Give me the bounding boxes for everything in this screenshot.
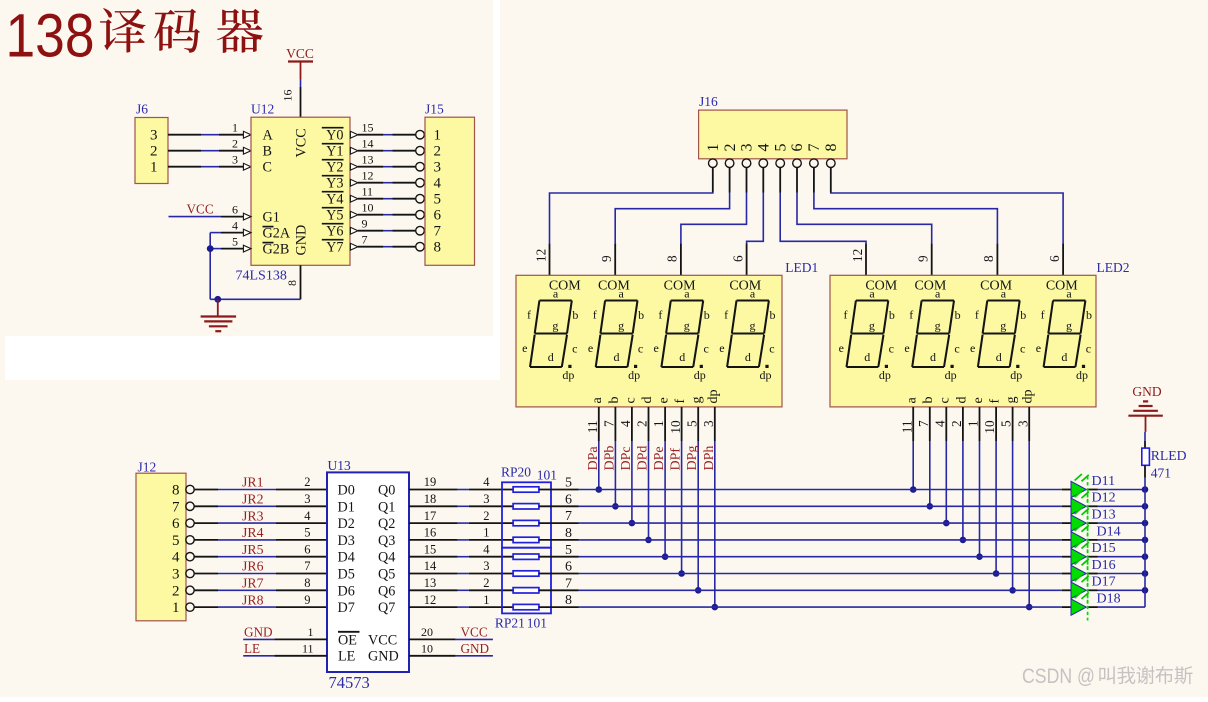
LED D16 — [1071, 558, 1116, 587]
svg-text:14: 14 — [362, 136, 374, 150]
junction LED1 g — [695, 587, 702, 594]
wire J12.7 JR2 to U13 D1 — [194, 492, 327, 507]
svg-text:D15: D15 — [1092, 541, 1116, 556]
wire J16.5 to display COM pin — [780, 168, 866, 276]
junction LED2 c — [943, 520, 950, 527]
svg-text:2: 2 — [434, 144, 442, 160]
junction LED2 b — [927, 503, 934, 510]
svg-text:c: c — [769, 341, 774, 355]
svg-text:LE: LE — [244, 641, 260, 656]
svg-text:8: 8 — [565, 593, 572, 608]
svg-text:Q7: Q7 — [378, 600, 395, 616]
U12 outputs Y0-Y7 names — [322, 128, 344, 256]
wire LED1 segment e to row 5 — [651, 397, 671, 556]
svg-text:4: 4 — [932, 420, 947, 427]
wire D18 to bus — [1089, 606, 1146, 608]
svg-text:COM: COM — [1046, 278, 1078, 293]
svg-text:5: 5 — [565, 543, 572, 558]
svg-text:A: A — [263, 128, 274, 144]
svg-text:dp: dp — [706, 390, 721, 404]
resistor RLED 471 — [1142, 441, 1187, 481]
svg-text:2: 2 — [483, 576, 489, 590]
svg-text:Y2: Y2 — [326, 160, 343, 176]
wire J6.1 to U12 pin 3 — [168, 152, 251, 170]
wire segment row 7 — [539, 576, 1071, 591]
svg-text:8: 8 — [172, 483, 180, 499]
wire U12 Y0 to J15.1 — [350, 120, 424, 139]
svg-text:dp: dp — [945, 368, 957, 382]
svg-text:JR6: JR6 — [242, 559, 264, 574]
svg-text:VCC: VCC — [368, 632, 397, 648]
svg-text:JR5: JR5 — [242, 542, 264, 557]
svg-text:D2: D2 — [338, 516, 355, 532]
svg-text:GND: GND — [461, 641, 490, 656]
junction LED1 c — [629, 520, 636, 527]
svg-text:7: 7 — [172, 499, 180, 515]
svg-text:a: a — [1001, 286, 1007, 300]
svg-text:J15: J15 — [425, 102, 444, 117]
wire J6.2 to U12 pin 2 — [168, 136, 251, 154]
svg-text:Y7: Y7 — [326, 240, 343, 256]
svg-text:4: 4 — [756, 144, 773, 152]
wire LE to U13 pin11 — [243, 642, 327, 656]
svg-text:1: 1 — [651, 420, 666, 427]
wire segment row 6 — [539, 560, 1071, 575]
junction LED1 d — [645, 537, 652, 544]
svg-text:dp: dp — [694, 368, 706, 382]
wire U12 Y4 to J15.5 — [350, 184, 424, 203]
svg-text:10: 10 — [421, 642, 433, 656]
wire D15 to bus — [1089, 556, 1146, 558]
svg-text:15: 15 — [424, 542, 437, 556]
junction LED2 f — [993, 570, 1000, 577]
svg-text:4: 4 — [172, 550, 180, 566]
LED D12 — [1071, 491, 1116, 520]
svg-text:a: a — [590, 397, 605, 404]
svg-text:a: a — [905, 397, 920, 404]
wire U13 Q2 to RP pin — [409, 509, 513, 523]
svg-text:c: c — [623, 397, 638, 403]
wire segment row 3 — [539, 509, 1071, 524]
svg-text:a: a — [750, 286, 756, 300]
svg-text:12: 12 — [850, 249, 865, 262]
wire U13 Q0 to RP pin — [409, 475, 513, 489]
svg-text:e: e — [904, 341, 909, 355]
junction LED2 e — [976, 553, 983, 560]
svg-text:8: 8 — [285, 280, 299, 286]
wire J16.4 to display COM pin — [730, 168, 763, 276]
svg-text:dp: dp — [1021, 390, 1036, 404]
svg-text:g: g — [935, 318, 941, 332]
svg-text:f: f — [988, 399, 1003, 404]
7-segment display LED2 — [830, 260, 1130, 407]
wire to U12 pin5 G2B — [210, 234, 251, 252]
svg-text:a: a — [935, 286, 941, 300]
svg-text:4: 4 — [434, 176, 442, 192]
svg-text:101: 101 — [537, 468, 557, 483]
svg-text:1: 1 — [232, 120, 238, 134]
svg-text:DPh: DPh — [702, 446, 717, 471]
svg-text:Q3: Q3 — [378, 533, 395, 549]
connector J16 — [699, 94, 847, 168]
svg-text:8: 8 — [665, 255, 680, 262]
svg-text:10: 10 — [362, 200, 374, 214]
svg-text:g: g — [684, 318, 690, 332]
svg-text:a: a — [553, 286, 559, 300]
svg-text:dp: dp — [760, 368, 772, 382]
svg-text:Y1: Y1 — [326, 144, 343, 160]
svg-text:9: 9 — [362, 216, 368, 230]
svg-text:Y6: Y6 — [326, 224, 343, 240]
svg-text:JR8: JR8 — [242, 592, 264, 607]
junction LED2 dp — [1026, 604, 1033, 611]
wire U12 Y5 to J15.6 — [350, 200, 424, 219]
wire D17 to bus — [1089, 589, 1146, 591]
svg-text:10: 10 — [668, 420, 683, 434]
svg-text:2: 2 — [635, 420, 650, 427]
svg-text:e: e — [839, 341, 844, 355]
junction bus D12 — [1142, 503, 1149, 510]
svg-text:c: c — [1020, 341, 1025, 355]
wire J12.2 JR7 to U13 D6 — [194, 576, 327, 591]
junction ground stem — [214, 296, 221, 303]
LED D17 — [1071, 575, 1116, 604]
net label VCC (U13) — [461, 625, 488, 640]
svg-text:3: 3 — [304, 492, 310, 506]
wire U12 Y3 to J15.4 — [350, 168, 424, 187]
svg-text:Q6: Q6 — [378, 583, 395, 599]
svg-text:c: c — [638, 341, 643, 355]
svg-text:b: b — [572, 308, 578, 322]
svg-text:2: 2 — [304, 475, 310, 489]
wire GND to U13 pin1 OE — [243, 625, 327, 639]
svg-text:b: b — [1020, 308, 1026, 322]
wire U13 Q4 to RP pin — [409, 542, 513, 556]
wire LED cathode bus — [1144, 478, 1146, 607]
svg-text:Q5: Q5 — [378, 567, 395, 583]
svg-text:DPf: DPf — [669, 448, 684, 471]
wire U13 Q1 to RP pin — [409, 492, 513, 506]
svg-text:5: 5 — [172, 533, 180, 549]
svg-text:RP21: RP21 — [495, 616, 525, 631]
svg-text:Y0: Y0 — [326, 128, 343, 144]
svg-text:b: b — [770, 308, 776, 322]
svg-text:C: C — [263, 160, 272, 176]
wire D14 to bus — [1089, 539, 1146, 541]
svg-text:b: b — [638, 308, 644, 322]
LED D14 — [1071, 524, 1121, 553]
svg-text:13: 13 — [424, 576, 437, 590]
svg-text:6: 6 — [565, 560, 572, 575]
svg-text:5: 5 — [684, 420, 699, 427]
svg-text:6: 6 — [565, 492, 572, 507]
wire U12 Y7 to J15.8 — [350, 232, 424, 251]
svg-text:16: 16 — [424, 526, 437, 540]
wire segment row 8 — [539, 593, 1071, 608]
svg-text:1: 1 — [483, 593, 489, 607]
wire to U12 pin4 G2A — [210, 218, 251, 236]
svg-text:8: 8 — [565, 526, 572, 541]
wire J16.7 to display COM pin — [814, 168, 998, 276]
IC U13 74573 — [327, 458, 409, 692]
svg-text:d: d — [996, 350, 1002, 364]
svg-text:b: b — [955, 308, 961, 322]
junction LED2 g — [1009, 587, 1016, 594]
svg-text:e: e — [971, 397, 986, 403]
svg-text:7: 7 — [806, 144, 823, 152]
wire J12.5 JR4 to U13 D3 — [194, 525, 327, 540]
svg-text:DPd: DPd — [636, 446, 651, 471]
svg-text:RP20: RP20 — [501, 464, 531, 479]
wire LED1 segment a to row 1 — [585, 397, 605, 490]
svg-text:12: 12 — [362, 168, 374, 182]
junction bus D16 — [1142, 570, 1149, 577]
svg-text:JR3: JR3 — [242, 508, 264, 523]
svg-text:e: e — [1036, 341, 1041, 355]
svg-text:Q0: Q0 — [378, 483, 395, 499]
svg-text:Q4: Q4 — [378, 550, 395, 566]
svg-text:VCC: VCC — [187, 201, 214, 216]
svg-text:e: e — [522, 341, 527, 355]
wire LED2 segment dp to row 8 — [1015, 390, 1035, 608]
svg-text:d: d — [640, 397, 655, 404]
svg-text:Y3: Y3 — [326, 176, 343, 192]
svg-text:D7: D7 — [338, 600, 355, 616]
wire GND to RLED — [1144, 432, 1146, 441]
LED D15 — [1071, 541, 1116, 570]
svg-text:COM: COM — [664, 278, 696, 293]
wire LED2 segment e to row 5 — [966, 397, 986, 556]
svg-text:c: c — [889, 341, 894, 355]
wire LED2 segment f to row 6 — [982, 399, 1002, 574]
svg-text:LE: LE — [338, 649, 355, 665]
wire J12.8 JR1 to U13 D0 — [194, 475, 327, 490]
svg-text:6: 6 — [730, 255, 745, 262]
svg-text:14: 14 — [424, 559, 437, 573]
svg-text:DPa: DPa — [586, 446, 601, 471]
svg-text:D5: D5 — [338, 567, 355, 583]
wire J12.1 JR8 to U13 D7 — [194, 592, 327, 607]
svg-text:d: d — [548, 350, 554, 364]
junction bus D15 — [1142, 553, 1149, 560]
svg-text:2: 2 — [172, 583, 180, 599]
svg-text:3: 3 — [1015, 420, 1030, 427]
svg-text:8: 8 — [304, 576, 310, 590]
wire J12.6 JR3 to U13 D2 — [194, 508, 327, 523]
svg-text:18: 18 — [424, 492, 437, 506]
svg-text:17: 17 — [424, 509, 437, 523]
resistor pack RP21 — [495, 548, 551, 631]
svg-text:U12: U12 — [251, 102, 274, 117]
svg-text:D17: D17 — [1092, 575, 1116, 590]
svg-text:c: c — [938, 397, 953, 403]
svg-text:b: b — [607, 397, 622, 404]
svg-text:g: g — [618, 318, 624, 332]
svg-text:COM: COM — [729, 278, 761, 293]
junction LED1 f — [678, 570, 685, 577]
svg-text:a: a — [1066, 286, 1072, 300]
wire U12 Y6 to J15.7 — [350, 216, 424, 235]
svg-text:12: 12 — [424, 593, 437, 607]
svg-text:RLED: RLED — [1151, 448, 1187, 463]
junction LED1 b — [612, 503, 619, 510]
svg-text:5: 5 — [772, 144, 789, 152]
wire D12 to bus — [1089, 505, 1146, 507]
wire segment row 1 — [539, 476, 1071, 491]
svg-text:Y4: Y4 — [326, 192, 343, 208]
wire U13 Q3 to RP pin — [409, 526, 513, 540]
svg-text:b: b — [704, 308, 710, 322]
svg-text:f: f — [1041, 308, 1045, 322]
svg-text:b: b — [1086, 308, 1092, 322]
svg-text:471: 471 — [1151, 466, 1171, 481]
power VCC (U12 pin 16) — [286, 46, 314, 79]
svg-text:GND: GND — [244, 625, 273, 640]
svg-text:5: 5 — [434, 192, 442, 208]
junction LED1 a — [596, 486, 603, 493]
svg-text:c: c — [1086, 341, 1091, 355]
junction LED1 e — [662, 553, 669, 560]
svg-text:g: g — [869, 318, 875, 332]
svg-text:138: 138 — [6, 1, 95, 69]
svg-text:CSDN @: CSDN @ — [1022, 665, 1095, 688]
svg-text:6: 6 — [789, 144, 806, 152]
wire J12.4 JR5 to U13 D4 — [194, 542, 327, 557]
svg-text:D16: D16 — [1092, 558, 1116, 573]
svg-text:5: 5 — [232, 234, 238, 248]
net label GND (U13) — [461, 641, 490, 656]
svg-text:LED1: LED1 — [785, 260, 818, 275]
wire segment row 5 — [539, 543, 1071, 558]
svg-text:4: 4 — [304, 509, 311, 523]
svg-text:VCC: VCC — [286, 46, 314, 61]
connector J12 — [136, 460, 194, 621]
svg-text:VCC: VCC — [293, 128, 309, 157]
LED D18 — [1071, 592, 1121, 621]
wire VCC to U12 pin6 G1 — [169, 202, 252, 220]
svg-text:J6: J6 — [136, 102, 148, 117]
svg-text:g: g — [1000, 318, 1006, 332]
wire U12 pin8 GND — [285, 265, 301, 299]
svg-text:e: e — [657, 397, 672, 403]
svg-text:7: 7 — [916, 420, 931, 427]
svg-text:b: b — [889, 308, 895, 322]
svg-text:16: 16 — [280, 90, 294, 102]
wire J16.8 to display COM pin — [831, 168, 1063, 276]
svg-text:g: g — [552, 318, 558, 332]
svg-text:D13: D13 — [1092, 508, 1116, 523]
junction bus D17 — [1142, 587, 1149, 594]
svg-text:G1: G1 — [263, 210, 280, 226]
svg-text:G2B: G2B — [263, 242, 290, 258]
svg-text:f: f — [593, 308, 597, 322]
svg-text:dp: dp — [562, 368, 574, 382]
svg-text:e: e — [654, 341, 659, 355]
svg-text:Y5: Y5 — [326, 208, 343, 224]
junction bus D11 — [1142, 486, 1149, 493]
svg-text:COM: COM — [914, 278, 946, 293]
svg-text:3: 3 — [483, 492, 489, 506]
svg-text:4: 4 — [483, 475, 490, 489]
wire LED2 segment c to row 3 — [932, 397, 952, 523]
svg-text:8: 8 — [981, 255, 996, 262]
svg-text:2: 2 — [232, 136, 238, 150]
svg-text:DPe: DPe — [652, 446, 667, 470]
junction bus D14 — [1142, 537, 1149, 544]
svg-text:VCC: VCC — [461, 625, 488, 640]
wire LED1 segment dp to row 8 — [701, 390, 721, 608]
svg-text:a: a — [869, 286, 875, 300]
connector J15 — [425, 102, 475, 266]
wire LED1 segment b to row 2 — [602, 397, 622, 507]
wire segment row 2 — [539, 492, 1071, 507]
wire J16.1 to display COM pin — [533, 168, 713, 276]
svg-text:15: 15 — [362, 120, 374, 134]
svg-text:7: 7 — [565, 576, 572, 591]
wire J16.2 to display COM pin — [599, 168, 730, 276]
wire LED2 segment a to row 1 — [899, 397, 919, 490]
svg-text:JR7: JR7 — [242, 576, 264, 591]
svg-text:D12: D12 — [1092, 491, 1116, 506]
svg-text:d: d — [930, 350, 936, 364]
svg-text:c: c — [572, 341, 577, 355]
svg-text:d: d — [1061, 350, 1067, 364]
svg-text:1: 1 — [434, 128, 442, 144]
svg-text:B: B — [263, 144, 272, 160]
svg-text:COM: COM — [980, 278, 1012, 293]
svg-text:g: g — [1066, 318, 1072, 332]
svg-text:7: 7 — [565, 509, 572, 524]
wire LED1 segment f to row 6 — [668, 399, 688, 574]
7-segment display LED1 — [516, 260, 818, 407]
svg-text:8: 8 — [434, 240, 442, 256]
svg-text:2: 2 — [150, 144, 158, 160]
svg-text:3: 3 — [150, 128, 158, 144]
svg-text:2: 2 — [483, 509, 489, 523]
svg-text:COM: COM — [598, 278, 630, 293]
svg-text:74573: 74573 — [329, 673, 370, 692]
svg-text:1: 1 — [308, 625, 314, 639]
svg-text:20: 20 — [421, 625, 433, 639]
svg-text:f: f — [844, 308, 848, 322]
svg-text:D11: D11 — [1092, 474, 1116, 489]
title 138 decoder — [6, 1, 263, 69]
svg-text:3: 3 — [434, 160, 442, 176]
svg-text:4: 4 — [232, 218, 238, 232]
svg-text:a: a — [619, 286, 625, 300]
wire U13 pin20 VCC — [409, 625, 493, 639]
wire G2A G2B to ground net — [210, 233, 300, 300]
svg-text:dp: dp — [628, 368, 640, 382]
wire LED2 segment b to row 2 — [916, 397, 936, 507]
svg-text:D0: D0 — [338, 483, 355, 499]
svg-text:d: d — [745, 350, 751, 364]
wire LED1 segment d to row 4 — [635, 397, 655, 540]
svg-text:a: a — [684, 286, 690, 300]
wire J12.3 JR6 to U13 D5 — [194, 559, 327, 574]
svg-text:2: 2 — [949, 420, 964, 427]
watermark CSDN — [1022, 665, 1193, 688]
svg-text:5: 5 — [304, 526, 310, 540]
svg-text:19: 19 — [424, 475, 437, 489]
LED D13 — [1071, 508, 1116, 537]
svg-text:D6: D6 — [338, 583, 355, 599]
svg-text:6: 6 — [1047, 255, 1062, 262]
wire U12 Y1 to J15.2 — [350, 136, 424, 155]
wire LED2 segment d to row 4 — [949, 397, 969, 540]
svg-text:J12: J12 — [138, 460, 157, 475]
svg-text:JR4: JR4 — [242, 525, 264, 540]
